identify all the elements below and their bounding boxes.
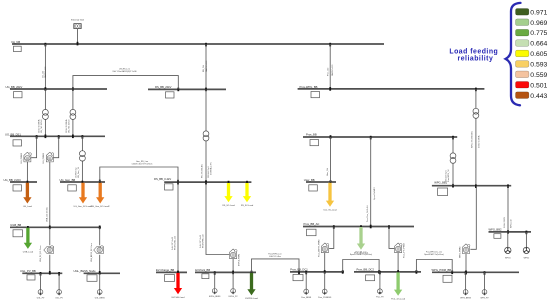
- svg-text:WPG_PWM_BB: WPG_PWM_BB: [432, 268, 452, 272]
- svg-text:WPG_BESS: WPG_BESS: [460, 297, 471, 299]
- junction Pros_Cbl at Pros_BB: [330, 135, 332, 139]
- svg-text:WPG_BB2: WPG_BB2: [489, 228, 502, 232]
- load arrow UG_Gen_SC-Load1: [74, 183, 94, 208]
- legend entry 0.443: [516, 92, 548, 100]
- junction ProsWPG trf at WPG_BB1: [452, 184, 454, 188]
- svg-text:EVPrk_PWM: EVPrk_PWM: [238, 254, 241, 266]
- svg-text:20kV 1.2km NA2XS(F)2Y 1x240: 20kV 1.2km NA2XS(F)2Y 1x240: [112, 70, 136, 73]
- svg-text:RS_SC-Load: RS_SC-Load: [241, 205, 254, 207]
- junction RS cable at Dg_NB: [205, 43, 207, 47]
- legend entry 0.969: [516, 19, 548, 27]
- svg-text:20/0.4kV Dyn5: 20/0.4kV Dyn5: [445, 170, 447, 182]
- wind generator WPG2: [523, 232, 529, 259]
- wire RS-EVCHG cable: [177, 182, 179, 272]
- junction Pros pv tap: [379, 271, 381, 275]
- junction UG-RS line at RS_BB_20kV: [177, 88, 179, 92]
- load arrow RS_SC-Load1: [222, 183, 235, 207]
- junction UG_PWM1 at UG_BB_DS1: [36, 135, 38, 139]
- busbar Pros_BB_DC1: [290, 268, 344, 281]
- wire Pros_Cbl: [329, 44, 331, 89]
- line Pros-WPG_DC_Lne: [416, 260, 452, 273]
- junction UGL PV2 tap: [58, 272, 60, 276]
- svg-text:UGL_PV: UGL_PV: [55, 297, 63, 299]
- svg-text:0.4kV NYY 4x50: 0.4kV NYY 4x50: [200, 235, 202, 248]
- wire Pros AC cable: [370, 137, 372, 227]
- junction RS_Cbl at RS_BB_20kV: [205, 88, 207, 92]
- wire EVPrk_PWM out: [232, 259, 234, 273]
- svg-text:WPG_Cbl: WPG_Cbl: [510, 219, 512, 228]
- svg-text:Pros-Pros_Cbl 0.4kV: Pros-Pros_Cbl 0.4kV: [367, 204, 369, 222]
- converter Pros_BESS_PWM: [317, 240, 329, 257]
- svg-text:Dg_NB: Dg_NB: [12, 40, 21, 44]
- svg-text:EVCHG-Load: EVCHG-Load: [172, 297, 186, 299]
- junction UGL PV conv at UGL_PV_BB: [49, 271, 51, 275]
- busbar UG_BB_20kV: [6, 85, 108, 98]
- svg-text:NA2XS 1x150: NA2XS 1x150: [44, 67, 47, 78]
- unit EVPrk_BESS: [209, 272, 221, 298]
- transformer Pros-WPG_Trf: [450, 137, 456, 186]
- svg-text:0.8kV DC 0.4km: 0.8kV DC 0.4km: [269, 256, 281, 258]
- svg-text:RS_BB_0.4kV: RS_BB_0.4kV: [154, 177, 171, 181]
- converter UGL_PV_Conv: [44, 246, 54, 254]
- svg-text:UG_Gen_BB: UG_Gen_BB: [60, 178, 76, 182]
- wire User cable: [330, 137, 332, 182]
- wire UGB PV out: [49, 255, 51, 273]
- unit UGL_PV1: [37, 273, 45, 299]
- junction UG_PWM2 at UG_BB_DS1: [58, 135, 60, 139]
- legend entry 0.501: [516, 81, 548, 89]
- svg-text:Pros_BB_AC: Pros_BB_AC: [304, 222, 320, 226]
- junction Pros-EVPrk at DC1: [298, 271, 300, 275]
- junction Pros down at Pros_BB: [370, 136, 372, 140]
- svg-text:1/0.66kV Dyn: 1/0.66kV Dyn: [75, 167, 77, 178]
- svg-text:reliability: reliability: [458, 56, 494, 63]
- svg-text:EVPrk_PV: EVPrk_PV: [229, 295, 239, 298]
- busbar Dg_NB: [12, 40, 385, 52]
- converter EVPrk_PWM: [230, 249, 241, 266]
- junction DC2-WPG line at WPG_PWM_BB: [451, 271, 453, 275]
- svg-text:0.66kV 0.5km NYY 4x70sm: 0.66kV 0.5km NYY 4x70sm: [132, 164, 153, 166]
- busbar Pros_BB_AC: [303, 222, 414, 236]
- junction UG_Cbl at UG_BB_20kV: [45, 87, 47, 91]
- svg-text:ProL_DC-Load: ProL_DC-Load: [391, 298, 406, 301]
- wire UGB BESS out: [99, 255, 101, 273]
- load arrow UG_Load: [23, 183, 33, 208]
- junction Pros PV PWM at DC2: [397, 270, 399, 274]
- junction WPG2 at WPG_BB2: [526, 231, 528, 235]
- legend entry 0.605: [516, 50, 548, 58]
- junction EVCHG cbl at EV-Charge_BB: [177, 271, 179, 275]
- busbar UGL_PV_BB: [20, 269, 62, 280]
- busbar UG_BB_LVDC: [4, 178, 38, 191]
- svg-text:Pros-WPG_DC_Lne: Pros-WPG_DC_Lne: [426, 252, 442, 254]
- load arrow RS_SC-Load2: [241, 183, 254, 207]
- load arrow EVCHG-Load: [172, 273, 186, 299]
- junction Gen-RS at UG_Gen_BB: [99, 180, 101, 184]
- svg-text:0.69kV 2.5MVA: 0.69kV 2.5MVA: [477, 135, 480, 148]
- busbar UGL_BESS_Node: [74, 269, 121, 281]
- junction DC1-DC2 line at DC2: [378, 270, 380, 274]
- svg-text:UGL_PV_BB: UGL_PV_BB: [20, 269, 36, 273]
- svg-text:RS_BB_20kV: RS_BB_20kV: [155, 85, 172, 89]
- svg-text:Pros_BESS: Pros_BESS: [301, 296, 312, 299]
- junction ProL_AC tap: [360, 225, 362, 229]
- junction WPG PWM at WPG_PWM_BB: [465, 271, 467, 275]
- svg-text:UG_PWM2: UG_PWM2: [43, 152, 45, 163]
- svg-text:EV-Park_BB: EV-Park_BB: [195, 268, 210, 272]
- wire Pros BESS feed: [329, 227, 334, 249]
- svg-text:UGL_BESS: UGL_BESS: [95, 297, 106, 299]
- svg-text:UG_BB_LVDC: UG_BB_LVDC: [4, 178, 22, 182]
- svg-text:0.775: 0.775: [530, 30, 547, 37]
- svg-text:0.69kV N2XS: 0.69kV N2XS: [504, 216, 506, 228]
- junction EVPrk PWM at EV-Park_BB: [232, 271, 234, 275]
- svg-text:0.971: 0.971: [530, 9, 547, 16]
- busbar UG_Gen_BB: [60, 178, 106, 191]
- busbar Pros_BB: [303, 133, 457, 146]
- wire external grid stub: [77, 29, 79, 44]
- svg-text:0.4kV NYY 4x50: 0.4kV NYY 4x50: [172, 237, 174, 250]
- transformer UG_Trf2: [70, 89, 76, 136]
- svg-text:RS_SC-Load: RS_SC-Load: [222, 205, 235, 207]
- svg-text:Use_SC-Load: Use_SC-Load: [323, 210, 337, 212]
- svg-text:Pros-PIL_Lne: Pros-PIL_Lne: [356, 252, 367, 254]
- svg-text:Pros_BESS_PWM: Pros_BESS_PWM: [317, 240, 320, 257]
- svg-text:UG_PWM1: UG_PWM1: [21, 152, 23, 163]
- svg-text:0.605: 0.605: [530, 51, 547, 58]
- busbar WPG_BB2: [489, 228, 532, 239]
- busbar WPG_PWM_BB: [432, 268, 520, 282]
- svg-text:20/1kV 0.63MVA: 20/1kV 0.63MVA: [37, 119, 40, 133]
- wire WPG PWM out: [465, 254, 467, 272]
- unit Pros_PV: [376, 272, 384, 299]
- junction UG_GenTrf at UG_BB_DS1: [82, 135, 84, 139]
- load arrow ProL_AC-Load: [354, 227, 369, 254]
- transformer WPG_Trf: [473, 89, 479, 186]
- transformer UG_Trf1: [43, 89, 49, 136]
- junction ext grid at Dg_NB: [77, 42, 79, 46]
- svg-text:UG_Load: UG_Load: [23, 206, 33, 208]
- junction WPG trf at Pros-WPG_BB: [475, 88, 477, 92]
- svg-text:WPG_PWM: WPG_PWM: [459, 247, 461, 258]
- line Gen-RS_Lne: [100, 167, 178, 182]
- busbar Pros_BB_DC2: [354, 268, 421, 281]
- junction RS load2 at RS_BB_0.4kV: [246, 181, 248, 185]
- junction UG_Trf1 at UG_BB_DS1: [45, 135, 47, 139]
- junction DC1-DC2 line at DC1: [342, 270, 344, 274]
- svg-text:UG_Trf1 20/1kV: UG_Trf1 20/1kV: [40, 119, 43, 133]
- junction ProsWPG trf at Pros_BB: [452, 136, 454, 140]
- svg-text:External Grid: External Grid: [71, 19, 85, 22]
- junction UG_PWM1 at UG_BB_LVDC: [27, 181, 29, 185]
- converter Pros_PV_PWM: [395, 243, 406, 258]
- junction EVPRK cbl at RS_BB_0.4kV: [205, 181, 207, 185]
- svg-text:0.593: 0.593: [530, 62, 547, 69]
- line Pros-EVPrk_Lne: [252, 259, 300, 273]
- svg-text:Pros_PV: Pros_PV: [376, 296, 384, 299]
- junction Pros_Cbl at Pros-WPG_BB: [329, 87, 331, 91]
- legend entry 0.971: [516, 9, 548, 17]
- junction EVPRK line tap: [251, 271, 253, 275]
- svg-text:Pros_Cbl: Pros_Cbl: [327, 67, 329, 76]
- svg-text:0.969: 0.969: [530, 20, 547, 27]
- junction RS load1 at RS_BB_0.4kV: [228, 181, 230, 185]
- busbar WPG_BB1: [432, 181, 511, 196]
- svg-text:User_BB: User_BB: [304, 178, 315, 182]
- svg-text:UGB_BB: UGB_BB: [10, 223, 21, 227]
- load arrow Use_SC-Load: [323, 183, 337, 212]
- svg-text:RS-EVPRK_Cbl: RS-EVPRK_Cbl: [203, 234, 205, 248]
- svg-text:RS_Trf 20/0.4kV: RS_Trf 20/0.4kV: [200, 163, 203, 178]
- svg-text:UG_Trf2 20/1kV: UG_Trf2 20/1kV: [68, 119, 71, 133]
- transformer RS_Trf: [203, 89, 209, 182]
- junction Gen-RS at RS_BB_0.4kV: [177, 180, 179, 184]
- unit WPG_PV: [480, 272, 489, 299]
- legend entry 0.664: [516, 40, 548, 48]
- converter UGL_BESS_Conv: [94, 246, 104, 254]
- junction UGL BESS conv at node: [99, 271, 101, 275]
- junction UGB load tap: [27, 226, 29, 230]
- junction UGB cbl at UGB_BB: [49, 226, 51, 230]
- junction WPG cbl at WPG_BB2: [507, 230, 509, 234]
- svg-text:0.664: 0.664: [530, 41, 547, 48]
- junction UG-RS line at UG_BB_20kV: [72, 87, 74, 91]
- svg-text:Pros_PV_PWM: Pros_PV_PWM: [403, 243, 406, 258]
- svg-text:WPG_PV: WPG_PV: [480, 297, 489, 299]
- busbar UGB_BB: [10, 223, 101, 237]
- busbar RS_BB_0.4kV: [154, 177, 251, 190]
- unit UGL_PV2: [55, 273, 63, 299]
- converter UG_PWM2: [43, 152, 54, 163]
- wire Pros PV feed: [389, 227, 394, 249]
- svg-text:Npros 10xNAYY: Npros 10xNAYY: [373, 186, 376, 200]
- junction EVCHG load tap: [177, 271, 179, 275]
- svg-text:WPG_Trf 20/0.69kV: WPG_Trf 20/0.69kV: [470, 130, 473, 148]
- transformer UG_Gen_Trf: [80, 136, 86, 182]
- svg-text:UGL_PV: UGL_PV: [37, 297, 45, 299]
- svg-text:Pros_BB_DC2: Pros_BB_DC2: [357, 268, 375, 272]
- svg-text:UGL_BESS_DC-Conv: UGL_BESS_DC-Conv: [91, 243, 93, 262]
- load arrow UG_Gen_SC-Load2: [91, 183, 111, 208]
- legend entry 0.559: [516, 71, 548, 79]
- svg-text:0.443: 0.443: [530, 93, 547, 100]
- busbar EV-Charge_BB: [156, 268, 187, 281]
- unit UGL_BESS: [95, 273, 106, 299]
- svg-text:EVPrk_BESS: EVPrk_BESS: [209, 295, 221, 298]
- svg-text:UG_BB_DS1: UG_BB_DS1: [5, 132, 21, 136]
- load arrow EVPRK-Load: [245, 273, 258, 300]
- junction Pros bess at DC1: [305, 271, 307, 275]
- junction DC2-WPG line at DC2: [416, 270, 418, 274]
- busbar RS_BB_20kV: [148, 85, 226, 98]
- busbar EV-Park_BB: [195, 268, 256, 279]
- svg-text:Pros_BB: Pros_BB: [306, 133, 317, 137]
- converter UG_PWM1: [21, 152, 32, 163]
- wire Pros BESS out: [324, 253, 326, 272]
- wire RS_Cbl: [205, 44, 207, 89]
- svg-text:0.501: 0.501: [530, 82, 547, 89]
- junction UGB bess at UGB_BB: [99, 226, 101, 230]
- junction WPG pv tap: [484, 271, 486, 275]
- load arrow ProL_DC-Load: [391, 272, 406, 300]
- wire UG_PWM1 feed: [31, 136, 36, 157]
- external grid G1: [71, 19, 85, 29]
- svg-text:RS-EVCHG_Cbl: RS-EVCHG_Cbl: [175, 236, 177, 250]
- svg-text:EV-Charge_BB: EV-Charge_BB: [156, 268, 174, 272]
- svg-text:WPG2: WPG2: [524, 257, 530, 259]
- junction EVCHG cbl at RS_BB_0.4kV: [177, 181, 179, 185]
- wire UG_PWM1 out: [26, 162, 28, 182]
- junction UG_Gen_Trf at UG_Gen_BB: [82, 181, 84, 185]
- unit EVPrk_PV: [229, 272, 239, 298]
- junction Pros AC cbl at Pros_BB_AC: [370, 225, 372, 229]
- junction EVPrk bess tap: [214, 271, 216, 275]
- wire Pros PV out: [397, 253, 399, 272]
- wire UG_PWM2 feed: [54, 136, 59, 157]
- wire UGB cable: [49, 162, 51, 227]
- wire WPG cable: [507, 186, 509, 232]
- svg-text:Pros_PV-BESS: Pros_PV-BESS: [318, 296, 332, 299]
- svg-text:NA2XS 1x150: NA2XS 1x150: [205, 61, 208, 72]
- junction WPG cable at WPG_BB1: [507, 184, 509, 188]
- junction UG cable at Dg_NB: [45, 43, 47, 47]
- junction UGL PV1 tap: [40, 272, 42, 276]
- svg-text:UGL_BESS_Node: UGL_BESS_Node: [74, 269, 97, 273]
- svg-text:UGB_Cbl 1kV DC: UGB_Cbl 1kV DC: [46, 206, 48, 222]
- legend entry 0.775: [516, 29, 548, 37]
- svg-text:User_Cbl: User_Cbl: [326, 168, 329, 176]
- busbar UG_BB_DS1: [5, 132, 105, 146]
- wire WPG PWM feed: [470, 186, 476, 250]
- junction Pros pv-bess at DC1: [324, 270, 326, 274]
- svg-text:UGB_Load: UGB_Load: [23, 251, 34, 253]
- junction UG_Trf2 at UG_BB_DS1: [72, 135, 74, 139]
- unit WPG_BESS: [460, 272, 471, 299]
- junction WPG_Trf at WPG_BB1: [475, 184, 477, 188]
- line Pros_PIL_Lne DC1-DC2: [343, 260, 379, 272]
- svg-text:NA2XS 1x150: NA2XS 1x150: [331, 65, 334, 76]
- wire UG_Cbl: [44, 44, 46, 89]
- svg-text:Pros-EVPrk_Lne: Pros-EVPrk_Lne: [268, 253, 281, 255]
- busbar User_BB: [304, 178, 336, 191]
- legend entry 0.593: [516, 61, 548, 69]
- busbar Pros-WPG_BB: [298, 85, 485, 98]
- line UG-RS_Lne: [73, 76, 178, 90]
- junction User cable at User_BB: [330, 180, 332, 184]
- load arrow UGB_Load: [23, 228, 34, 254]
- wind generator WPG1: [505, 232, 511, 259]
- svg-text:UG_Gen_SC-Load2: UG_Gen_SC-Load2: [91, 206, 111, 208]
- svg-text:Load feeding: Load feeding: [449, 49, 498, 56]
- converter WPG_PWM: [459, 244, 470, 258]
- svg-text:UG-RS_Lne: UG-RS_Lne: [119, 68, 131, 70]
- svg-text:0.559: 0.559: [530, 72, 547, 79]
- svg-text:0.63MVA uk 6%: 0.63MVA uk 6%: [209, 162, 212, 175]
- junction RS_Trf at RS_BB_0.4kV: [205, 180, 207, 184]
- svg-text:NprosW NAYY 2x(2x0.6sm): NprosW NAYY 2x(2x0.6sm): [424, 253, 444, 256]
- unit Pros_PV-BESS: [318, 272, 332, 299]
- legend brace: [506, 3, 521, 105]
- wire RS-EVPRK cable: [206, 182, 229, 254]
- junction WPG bess tap: [465, 271, 467, 275]
- svg-text:Pros-WPG_BB: Pros-WPG_BB: [300, 85, 318, 89]
- wire UGB PV cable: [49, 227, 51, 245]
- svg-text:UG_BB_20kV: UG_BB_20kV: [6, 85, 23, 89]
- unit Pros_BESS: [301, 272, 312, 299]
- junction Pros bess at Pros_BB_AC: [333, 225, 335, 229]
- svg-text:20/1kV 0.63MVA: 20/1kV 0.63MVA: [65, 119, 68, 133]
- junction Pros cable at Dg_NB: [329, 43, 331, 47]
- svg-text:EVPRK-Load: EVPRK-Load: [245, 298, 258, 300]
- wire UGB BESS cable: [99, 227, 101, 245]
- svg-text:Gen_RS_Lne: Gen_RS_Lne: [136, 161, 149, 163]
- junction Pros pv at Pros_BB_AC: [388, 225, 390, 229]
- svg-text:UGL_PV_DC-Conv: UGL_PV_DC-Conv: [40, 246, 42, 262]
- svg-text:WPG1: WPG1: [505, 257, 511, 259]
